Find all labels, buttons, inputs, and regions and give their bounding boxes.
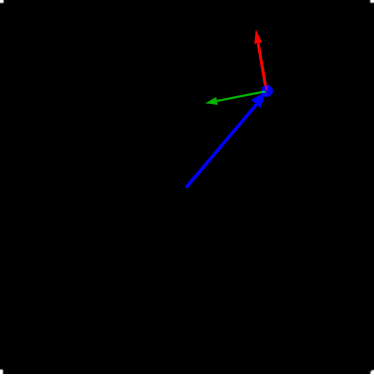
- wire red axis shaft: [258, 43, 266, 91]
- wire green axis shaft: [217, 91, 268, 101]
- node blue arrowhead: [251, 91, 266, 108]
- corner notch bottom-right concave bite: [369, 368, 372, 371]
- node red arrowhead: [254, 29, 262, 44]
- corner notch top-left: [0, 0, 4, 3]
- node blue origin dot: [261, 85, 273, 97]
- corner notch bottom-left: [0, 370, 3, 377]
- corner notch top-right: [370, 0, 374, 3]
- corner notch bottom-right: [370, 370, 374, 376]
- node dark seam across dot: [261, 87, 271, 95]
- wire red overlap blend on dot: [265, 86, 268, 91]
- node green arrowhead: [205, 97, 218, 105]
- wire blue translation vector shaft: [186, 104, 257, 188]
- wire green overlap blend on dot: [261, 90, 266, 93]
